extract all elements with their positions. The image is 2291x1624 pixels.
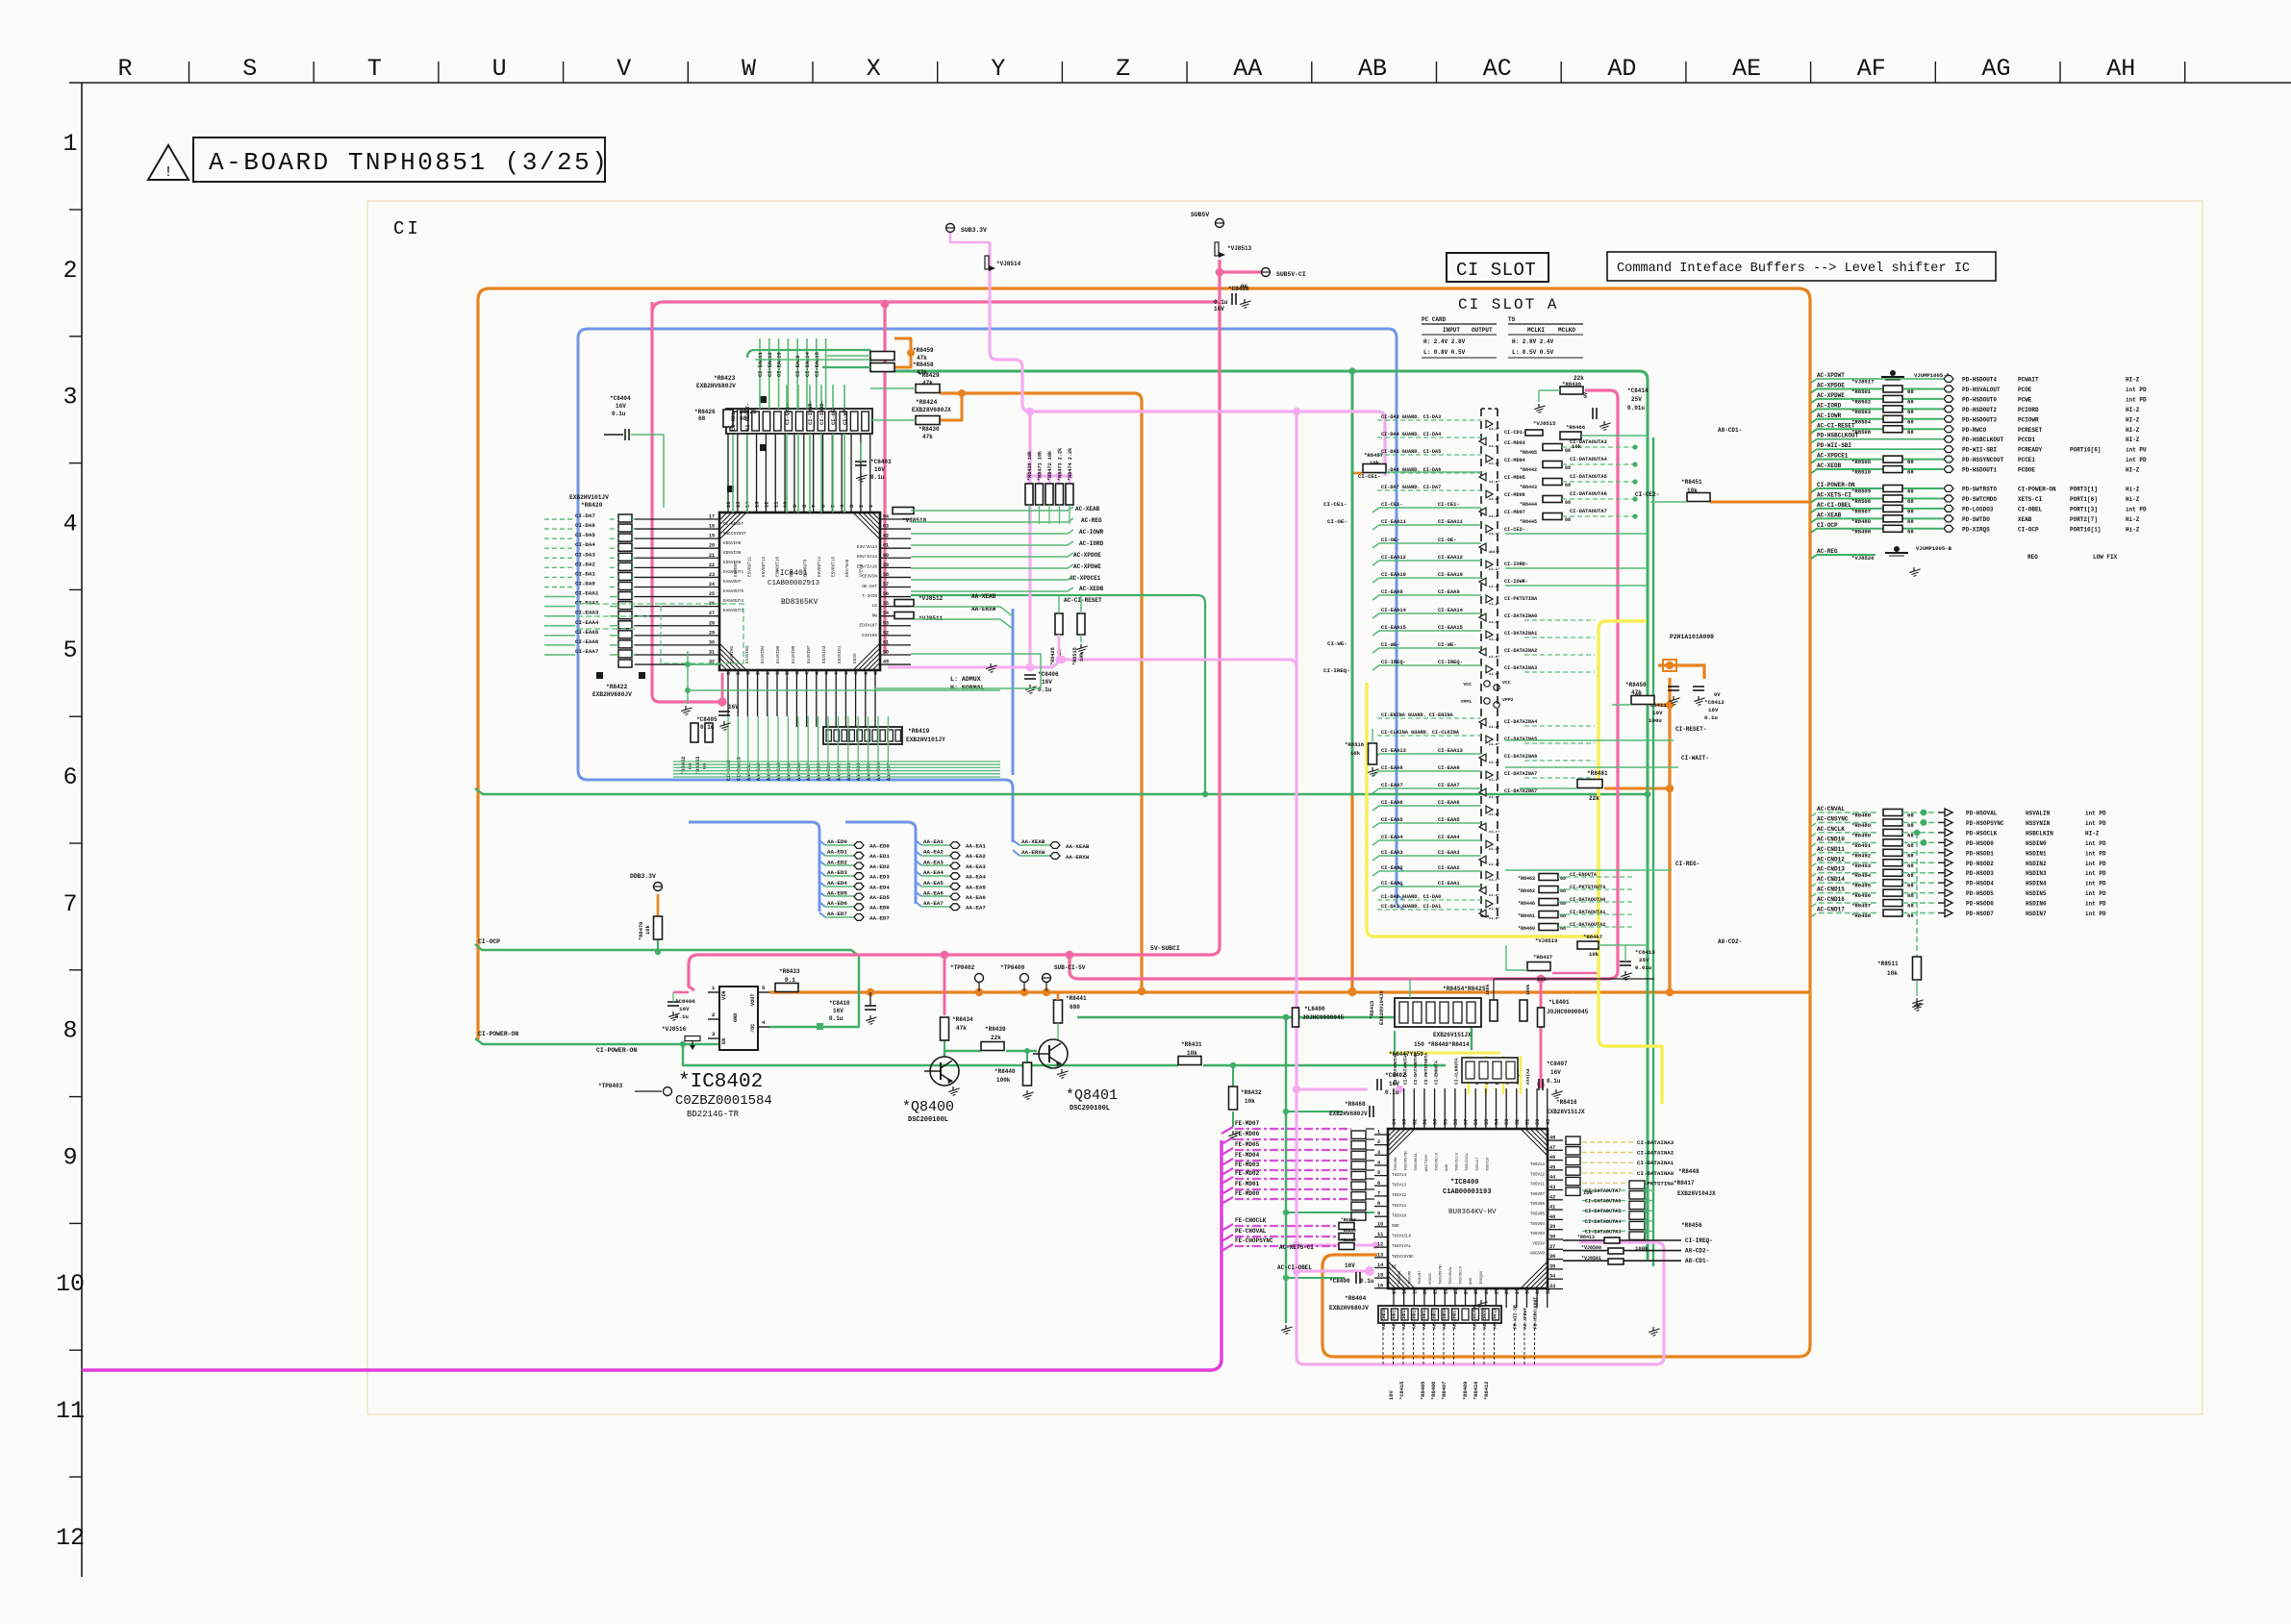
svg-text:AC-CHD14: AC-CHD14	[1422, 1308, 1427, 1329]
svg-text:U: U	[492, 55, 507, 83]
svg-text:CI-CE1-: CI-CE1-	[1381, 502, 1403, 508]
svg-text:11: 11	[1377, 1232, 1383, 1237]
IC U8401 bottom pins	[726, 669, 879, 727]
svg-text:EA3VIN5: EA3VIN5	[776, 645, 781, 663]
svg-text:AG: AG	[1981, 55, 2010, 83]
svg-text:*R8516: *R8516	[1345, 741, 1365, 748]
svg-text:AC-XPDOE: AC-XPDOE	[1817, 382, 1845, 388]
wire pink SUB5V rail	[689, 260, 1220, 990]
jumper VJ8513	[1215, 242, 1219, 256]
svg-text:*R8458: *R8458	[1341, 1218, 1356, 1223]
svg-text:GND: GND	[1470, 1277, 1473, 1285]
svg-text:A-BOARD TNPH0851 (3/25): A-BOARD TNPH0851 (3/25)	[209, 148, 609, 177]
IC U8402 body	[719, 987, 758, 1050]
svg-text:D5V/EA8: D5V/EA8	[845, 559, 850, 577]
svg-text:*VJ8519: *VJ8519	[1535, 937, 1558, 944]
svg-text:28: 28	[1504, 1288, 1510, 1294]
svg-text:*R8461: *R8461	[1518, 913, 1535, 919]
svg-text:AC-CHD15: AC-CHD15	[1432, 1308, 1438, 1329]
svg-text:CI-OE-: CI-OE-	[1438, 537, 1456, 543]
svg-text:AC-REG: AC-REG	[1817, 548, 1838, 555]
svg-text:R: R	[117, 55, 132, 83]
wire green QFP right vertical	[1652, 437, 1654, 1266]
svg-text:CI-WP-: CI-WP-	[843, 407, 848, 425]
svg-text:43: 43	[1549, 1185, 1555, 1190]
svg-text:CI-DATAOUTA5: CI-DATAOUTA5	[1585, 1209, 1621, 1214]
svg-text:EXB2HV680JV: EXB2HV680JV	[592, 691, 632, 698]
svg-text:*R8415: *R8415	[1370, 1001, 1375, 1019]
svg-text:10: 10	[1377, 1221, 1383, 1227]
svg-text:AC-XPDWT: AC-XPDWT	[1817, 372, 1845, 379]
resistor R8434	[941, 1017, 949, 1040]
svg-text:AC-XPDWE: AC-XPDWE	[1817, 392, 1845, 399]
svg-text:7: 7	[812, 505, 818, 508]
svg-text:*R8450: *R8450	[1625, 682, 1647, 688]
wire green box around CI slot buffers	[870, 371, 1648, 1260]
svg-text:*Q8400: *Q8400	[902, 1099, 954, 1115]
svg-text:ED5VIO8: ED5VIO8	[723, 541, 742, 546]
green bus staircase inside blue box	[728, 716, 888, 775]
svg-text:T85V11: T85V11	[1530, 1184, 1546, 1187]
svg-text:AA-ED1: AA-ED1	[827, 849, 847, 856]
svg-text:*IC8400: *IC8400	[1450, 1179, 1478, 1187]
svg-text:*R8429: *R8429	[919, 372, 940, 379]
ruler row numbers	[56, 130, 85, 1552]
svg-text:*R8406: *R8406	[1431, 1382, 1437, 1400]
svg-text:0.01u: 0.01u	[1635, 964, 1652, 971]
signal AC-REG row	[1811, 555, 1876, 559]
svg-text:CI-DATAINA7: CI-DATAINA7	[1504, 771, 1537, 777]
svg-text:PORT3[1]: PORT3[1]	[2070, 487, 2098, 493]
testpoint TP8403	[635, 1090, 662, 1092]
svg-text:ci-i*: ci-i*	[1489, 862, 1499, 867]
svg-text:68: 68	[1565, 448, 1571, 454]
svg-text:CI-DATAINA0: CI-DATAINA0	[1504, 613, 1537, 619]
svg-text:AA-ED1: AA-ED1	[826, 762, 832, 781]
svg-text:CI-EAA12: CI-EAA12	[1438, 555, 1463, 561]
svg-text:54: 54	[1495, 1119, 1500, 1125]
svg-text:49: 49	[883, 660, 889, 665]
svg-text:CI-EAA3: CI-EAA3	[1438, 850, 1460, 856]
svg-text:CI-PKTSTINA: CI-PKTSTINA	[1504, 596, 1538, 602]
svg-text:AA-EA1: AA-EA1	[966, 843, 986, 850]
svg-text:AA-EA7: AA-EA7	[966, 905, 986, 912]
svg-text:AA-EA4: AA-EA4	[923, 869, 944, 876]
svg-text:31: 31	[1535, 1288, 1541, 1294]
IC U8400 bottom pins	[1392, 1288, 1551, 1308]
svg-text:57: 57	[1464, 1119, 1470, 1125]
inductor L8400	[1293, 1008, 1299, 1027]
svg-text:AA-EA2: AA-EA2	[923, 849, 944, 856]
svg-text:25V: 25V	[1639, 957, 1649, 963]
resistor R8426 R8425	[723, 410, 733, 427]
svg-text:16V: 16V	[1042, 679, 1052, 686]
svg-text:PCIOWR: PCIOWR	[2018, 416, 2039, 423]
svg-text:46: 46	[1549, 1155, 1555, 1161]
svg-text:FE-MD01: FE-MD01	[1235, 1181, 1260, 1187]
svg-text:PD-HSDOUT1: PD-HSDOUT1	[1962, 467, 1997, 474]
svg-text:52: 52	[883, 630, 889, 636]
rotated labels below QFP bottom	[1381, 1297, 1539, 1365]
svg-text:*TP8402: *TP8402	[950, 964, 975, 971]
svg-text:AA-XEAB: AA-XEAB	[1021, 838, 1045, 845]
svg-text:8: 8	[1377, 1201, 1380, 1207]
svg-text:ci-c*: ci-c*	[1489, 795, 1499, 800]
svg-text:CI-DATAOUTA7: CI-DATAOUTA7	[1570, 509, 1607, 514]
IC U8401 top pins	[726, 435, 874, 512]
CI slot buffer rows	[1372, 414, 1514, 921]
svg-text:*R8442: *R8442	[1520, 467, 1537, 473]
svg-text:*R8465: *R8465	[1520, 450, 1537, 456]
svg-text:CI-DA2: CI-DA2	[575, 561, 595, 567]
svg-text:CI-DATAOUTA6: CI-DATAOUTA6	[1585, 1199, 1621, 1205]
svg-text:FE-CHOPSYNC: FE-CHOPSYNC	[1235, 1237, 1273, 1244]
svg-text:HSDIN3: HSDIN3	[2026, 870, 2047, 877]
svg-text:E3V106: E3V106	[862, 634, 877, 638]
capacitor C8411	[1668, 686, 1679, 687]
svg-text:PC CARD: PC CARD	[1422, 316, 1447, 323]
svg-text:int PD: int PD	[2085, 911, 2106, 917]
svg-text:CI-EAA2: CI-EAA2	[575, 600, 599, 607]
svg-text:16V: 16V	[1345, 1262, 1355, 1269]
svg-text:PD-HSOD6: PD-HSOD6	[1966, 901, 1994, 908]
svg-text:SUB5V: SUB5V	[1191, 212, 1209, 218]
svg-text:AA-ED3: AA-ED3	[827, 869, 847, 876]
svg-text:PCDOE: PCDOE	[2018, 467, 2035, 474]
svg-text:PD-HSOD7: PD-HSOD7	[1966, 911, 1994, 917]
svg-text:AE: AE	[1732, 55, 1761, 83]
svg-text:6: 6	[1377, 1181, 1380, 1187]
svg-text:CI-DA5 GUARD. CI-DA5: CI-DA5 GUARD. CI-DA5	[1381, 449, 1441, 455]
svg-text:int PD: int PD	[2085, 881, 2106, 887]
svg-text:PD-HSDOUT2: PD-HSDOUT2	[1962, 407, 1997, 413]
svg-text:MCLKO: MCLKO	[1558, 327, 1575, 334]
svg-text:PD-HSOD1: PD-HSOD1	[1966, 850, 1994, 857]
resistor R8516	[1369, 743, 1377, 764]
svg-text:*C8403: *C8403	[870, 459, 892, 465]
svg-text:ci-p*: ci-p*	[1489, 602, 1499, 607]
svg-text:6: 6	[63, 763, 77, 791]
svg-text:*VJ8516: *VJ8516	[662, 1026, 687, 1033]
wire green pin31 gnd link	[687, 651, 689, 704]
resistor R8458	[870, 363, 894, 372]
svg-text:E5VOUT15: E5VOUT15	[832, 557, 837, 577]
svg-text:CE3VIN: CE3VIN	[862, 575, 877, 580]
svg-text:CI-CE2-: CI-CE2-	[1635, 491, 1659, 498]
power SUB5V-CI	[1262, 268, 1271, 277]
svg-text:CI-WAIT-: CI-WAIT-	[1681, 755, 1709, 762]
svg-text:*R8488: *R8488	[1851, 812, 1872, 819]
svg-text:AA-ED7: AA-ED7	[827, 911, 847, 917]
svg-text:*R8452: *R8452	[681, 757, 687, 775]
svg-text:CI-DATAINA2: CI-DATAINA2	[1637, 1150, 1674, 1157]
svg-text:RW: RW	[872, 613, 878, 618]
svg-text:68: 68	[1565, 483, 1571, 488]
svg-text:EA5VOUT3: EA5VOUT3	[723, 609, 743, 613]
resistor R8431	[1178, 1057, 1201, 1065]
capacitor C8413	[1620, 961, 1631, 962]
svg-text:*VJ8520: *VJ8520	[1851, 555, 1875, 562]
svg-text:ci-m*: ci-m*	[1489, 497, 1499, 502]
svg-text:*R8432: *R8432	[1241, 1089, 1262, 1096]
svg-text:PD-HSOD3: PD-HSOD3	[1966, 870, 1994, 877]
svg-text:*R8460: *R8460	[1341, 1238, 1356, 1243]
svg-text:*R8407: *R8407	[1442, 1382, 1448, 1400]
svg-text:PCOE: PCOE	[2018, 387, 2032, 393]
svg-text:AA-EA2: AA-EA2	[966, 853, 986, 860]
svg-text:68: 68	[1907, 418, 1914, 425]
svg-text:AA-ED5: AA-ED5	[869, 894, 890, 901]
svg-text:10k: 10k	[645, 925, 651, 935]
svg-text:68: 68	[1907, 398, 1914, 405]
svg-text:W: W	[742, 55, 756, 83]
svg-text:HI-Z: HI-Z	[2126, 437, 2140, 443]
svg-text:AC-XPDCE1: AC-XPDCE1	[1070, 575, 1101, 582]
svg-text:*R8496: *R8496	[1851, 892, 1872, 899]
svg-text:68: 68	[1907, 508, 1914, 514]
svg-text:10k: 10k	[1245, 1098, 1255, 1105]
svg-text:*R8491: *R8491	[1851, 842, 1872, 849]
svg-text:EXB2HV680JV: EXB2HV680JV	[1329, 1305, 1369, 1312]
IC U8400 inner labels	[1392, 1150, 1545, 1285]
svg-text:T85VICLK: T85VICLK	[1456, 1152, 1460, 1171]
svg-text:*R8420: *R8420	[581, 502, 603, 509]
svg-text:32: 32	[1546, 1288, 1551, 1294]
svg-text:*VJ8513: *VJ8513	[1227, 245, 1252, 252]
power SUB5V	[1216, 219, 1224, 228]
svg-text:*VJ8514: *VJ8514	[996, 261, 1021, 267]
svg-text:CI-DATAINA4: CI-DATAINA4	[1504, 719, 1537, 725]
svg-text:*TP8403: *TP8403	[598, 1083, 623, 1089]
svg-text:AC-CI-OBEL: AC-CI-OBEL	[1277, 1264, 1312, 1271]
svg-text:AC-XEDB: AC-XEDB	[1817, 462, 1842, 469]
svg-text:52: 52	[1515, 1119, 1521, 1125]
svg-text:AA-EA6: AA-EA6	[796, 762, 802, 781]
svg-text:int PD: int PD	[2085, 901, 2106, 908]
svg-text:*C8405: *C8405	[696, 716, 718, 723]
svg-text:T83V12: T83V12	[1392, 1194, 1407, 1198]
svg-text:1: 1	[869, 505, 874, 508]
svg-text:62: 62	[1412, 1119, 1418, 1125]
wire violet long QFP loop	[1297, 412, 1664, 1364]
wire green gnd rail QFP left	[1285, 1017, 1287, 1323]
jumper VJ8516	[685, 1037, 700, 1041]
wire green base network Q8401	[944, 1051, 981, 1057]
connector R8423 array top	[726, 409, 872, 434]
svg-text:100u: 100u	[1649, 717, 1662, 724]
svg-text:AA-EA6: AA-EA6	[966, 894, 986, 901]
svg-text:AA-XEAB: AA-XEAB	[1066, 843, 1090, 850]
testpoint TP8400	[1020, 974, 1029, 983]
signal list group 2	[1811, 482, 2147, 535]
svg-text:*R8424: *R8424	[916, 399, 938, 406]
svg-text:/OC: /OC	[750, 1024, 756, 1033]
wire green long rail y826	[475, 788, 1648, 794]
svg-text:5: 5	[1377, 1170, 1380, 1176]
svg-text:ATA(A4: ATA(A4	[1525, 1068, 1531, 1085]
wire pink top rail	[652, 302, 1220, 313]
svg-text:AA-EA1: AA-EA1	[923, 838, 944, 845]
svg-text:50: 50	[1535, 1119, 1541, 1125]
svg-text:22k: 22k	[1589, 795, 1599, 802]
svg-text:0.1u: 0.1u	[870, 474, 885, 481]
svg-text:AC-CND17: AC-CND17	[1817, 907, 1845, 913]
svg-text:10k: 10k	[1079, 653, 1085, 662]
svg-text:EXB28V151JX: EXB28V151JX	[1547, 1109, 1585, 1115]
rotated bus labels below QFP	[726, 757, 892, 781]
svg-text:AC-XETS-CI: AC-XETS-CI	[1279, 1244, 1314, 1251]
svg-text:int PD: int PD	[2085, 861, 2106, 867]
svg-text:GND: GND	[733, 1013, 739, 1022]
svg-text:CI-EAA9: CI-EAA9	[1381, 589, 1403, 595]
svg-text:16V: 16V	[874, 466, 885, 473]
svg-text:CI-EAA5: CI-EAA5	[1438, 817, 1460, 823]
svg-text:*R8433: *R8433	[779, 968, 800, 975]
svg-text:*R8459: *R8459	[1341, 1229, 1356, 1234]
svg-text:Hi-Z: Hi-Z	[2126, 487, 2140, 493]
svg-text:*C8412: *C8412	[1704, 699, 1725, 706]
svg-text:10: 10	[783, 502, 789, 508]
wire orange R8457 stub	[1352, 472, 1363, 475]
wire violet C8406 rail	[888, 660, 1297, 667]
svg-text:C0ZBZ0001584: C0ZBZ0001584	[675, 1093, 772, 1109]
wire green IC8402 OC stub	[817, 1023, 823, 1030]
svg-text:CI-WE-: CI-WE-	[1438, 642, 1456, 648]
svg-text:AC-IORD: AC-IORD	[1817, 402, 1842, 409]
svg-text:P2H1A101A009: P2H1A101A009	[1670, 634, 1714, 640]
left connector R8420 array	[618, 514, 632, 667]
svg-text:EN: EN	[721, 1038, 727, 1044]
svg-text:60: 60	[883, 553, 889, 559]
svg-text:AA-ED3: AA-ED3	[869, 874, 890, 881]
svg-text:HI-Z: HI-Z	[2126, 427, 2140, 434]
svg-text:68: 68	[1565, 500, 1571, 506]
svg-text:100k: 100k	[1485, 984, 1491, 995]
wire orange R8481 stub	[1604, 787, 1670, 790]
svg-text:PD-LOSDO3: PD-LOSDO3	[1962, 506, 1994, 512]
svg-text:16V: 16V	[1550, 1069, 1561, 1076]
svg-text:CI-DA7: CI-DA7	[575, 512, 595, 519]
connector array R8402 left of QFP	[1351, 1131, 1366, 1220]
dashed DATAOUT rows right	[1582, 1187, 1653, 1235]
svg-text:47: 47	[864, 669, 869, 675]
svg-text:CI-DA3 GUARD. CI-DA3: CI-DA3 GUARD. CI-DA3	[1381, 414, 1441, 420]
power SUB-CI-5V	[1043, 974, 1051, 983]
svg-text:*R8470: *R8470	[639, 922, 644, 940]
ruler column ticks	[189, 62, 2185, 83]
svg-text:0.01u: 0.01u	[1627, 405, 1645, 412]
svg-text:47k: 47k	[917, 355, 927, 362]
svg-text:*R8481: *R8481	[1587, 770, 1608, 777]
svg-text:PD-HSOVAL: PD-HSOVAL	[1966, 811, 1998, 817]
right side signal labels CI-DATAINA	[1582, 1139, 1674, 1187]
svg-text:23: 23	[709, 572, 715, 578]
svg-text:AC-XPDWE: AC-XPDWE	[1073, 563, 1101, 570]
svg-text:V: V	[617, 55, 631, 83]
svg-text:15: 15	[736, 502, 742, 508]
svg-text:49: 49	[1546, 1119, 1551, 1125]
svg-text:T-3VIN: T-3VIN	[862, 594, 877, 599]
grounds around QFP	[1285, 1325, 1287, 1329]
svg-text:AC-IOWR: AC-IOWR	[1817, 412, 1842, 419]
svg-text:AC-CHD16: AC-CHD16	[1442, 1308, 1448, 1329]
svg-text:int PD: int PD	[2085, 820, 2106, 827]
svg-text:CI-DA5: CI-DA5	[575, 532, 595, 538]
svg-text:int PD: int PD	[2085, 840, 2106, 847]
svg-text:PE-CHOVAL: PE-CHOVAL	[1235, 1228, 1267, 1235]
svg-text:AA: AA	[1233, 55, 1262, 83]
svg-text:CI SLOT: CI SLOT	[1456, 260, 1536, 281]
wire pink R8437 stub	[1552, 972, 1598, 975]
svg-text:A8-CD1-: A8-CD1-	[1685, 1258, 1709, 1264]
svg-text:EXB28V104JX: EXB28V104JX	[1379, 990, 1385, 1025]
svg-text:*R8505: *R8505	[1851, 459, 1872, 465]
svg-text:T83V1SYNC: T83V1SYNC	[1392, 1256, 1414, 1260]
svg-text:T85V05: T85V05	[1530, 1213, 1546, 1217]
svg-text:CI-IOWR-: CI-IOWR-	[808, 400, 814, 425]
svg-text:SUB3.3V: SUB3.3V	[961, 227, 987, 234]
svg-text:*R8460: *R8460	[1518, 926, 1535, 932]
svg-text:MCLKI: MCLKI	[1527, 327, 1545, 334]
svg-text:*VJ8518: *VJ8518	[902, 517, 927, 524]
svg-text:CI-EAA11: CI-EAA11	[1381, 519, 1406, 525]
green lines QFP right to labels	[911, 507, 1073, 591]
svg-text:61: 61	[1422, 1119, 1428, 1125]
IC U8402 pin4 OC	[758, 1026, 769, 1028]
svg-text:CI-CE1-: CI-CE1-	[1323, 501, 1347, 508]
svg-text:AA-EA7: AA-EA7	[923, 900, 944, 907]
svg-text:*VJ8500: *VJ8500	[1581, 1245, 1601, 1251]
wire violet resistor bank branch	[1030, 412, 1385, 471]
svg-text:48: 48	[1549, 1136, 1555, 1141]
svg-text:A8-CD1-: A8-CD1-	[1718, 427, 1742, 434]
wire orange SUB3.3V feed	[657, 894, 660, 916]
svg-text:CI-DATAINA1: CI-DATAINA1	[1637, 1160, 1674, 1166]
svg-text:*R8448: *R8448	[1678, 1168, 1699, 1175]
svg-text:58: 58	[1453, 1119, 1459, 1125]
svg-text:68: 68	[698, 415, 706, 422]
svg-text:CI-MD05: CI-MD05	[1504, 475, 1525, 481]
svg-text:29: 29	[1515, 1288, 1521, 1294]
svg-text:33: 33	[726, 669, 732, 675]
sheet frame left ruler line	[81, 83, 83, 1577]
capacitor C8412	[1693, 686, 1704, 687]
svg-text:CI-POWER-ON: CI-POWER-ON	[478, 1031, 518, 1037]
svg-text:27: 27	[709, 611, 715, 616]
IC U8400 left pins	[1374, 1130, 1388, 1289]
wire violet pin15 branch	[1297, 1270, 1368, 1273]
svg-text:GND: GND	[1392, 1225, 1399, 1229]
svg-text:CI-EAA7: CI-EAA7	[575, 648, 599, 655]
svg-text:CI-CLKINA GUARD. CI-CLKINA: CI-CLKINA GUARD. CI-CLKINA	[1381, 730, 1460, 736]
svg-text:AC-CHSYNC: AC-CHSYNC	[1473, 1305, 1478, 1329]
svg-text:*R8507: *R8507	[1851, 508, 1871, 514]
svg-text:T85VIVAL: T85VIVAL	[1466, 1152, 1470, 1171]
resistor R8439	[981, 1042, 1004, 1051]
svg-text:XEAB: XEAB	[2018, 516, 2032, 523]
svg-text:T83V1CLK: T83V1CLK	[1392, 1236, 1412, 1239]
svg-text:CI-EAA14: CI-EAA14	[1438, 608, 1464, 613]
svg-text:10k: 10k	[1187, 1050, 1197, 1057]
svg-text:11: 11	[56, 1397, 85, 1425]
svg-text:2: 2	[1377, 1139, 1380, 1145]
svg-text:*R8463: *R8463	[1518, 876, 1535, 882]
svg-text:10k: 10k	[1572, 443, 1582, 450]
svg-text:*R8457: *R8457	[1364, 452, 1383, 459]
resistor R8432	[1229, 1087, 1238, 1110]
svg-text:CI-IREQ-: CI-IREQ-	[1685, 1237, 1713, 1244]
svg-text:*R8493: *R8493	[1851, 862, 1872, 869]
